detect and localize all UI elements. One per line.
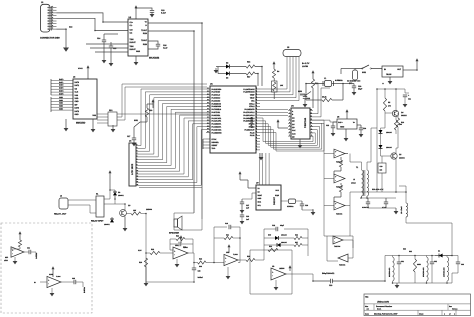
wire loop connections	[343, 240, 353, 258]
svg-text:C15: C15	[113, 47, 116, 50]
svg-text:RFA GD0 4.7K: RFA GD0 4.7K	[372, 188, 384, 191]
ground U2	[135, 56, 137, 62]
inverter U6E 74HC04	[338, 254, 348, 262]
svg-text:T2OUT: T2OUT	[141, 39, 148, 42]
svg-text:C2-: C2-	[130, 32, 133, 35]
wire to opamp B	[206, 262, 224, 264]
op-amp U8B	[224, 254, 238, 265]
svg-text:R5: R5	[388, 101, 390, 104]
capacitor C17b feedback	[170, 243, 178, 245]
wire ladder bottom rail	[392, 282, 452, 284]
svg-text:R22: R22	[151, 248, 154, 251]
ground DB9	[63, 48, 69, 52]
svg-text:RESET: RESET	[212, 144, 219, 147]
wire T1 bottom	[361, 196, 363, 198]
capacitor C18 top	[275, 227, 277, 231]
capacitor C18b	[228, 225, 230, 229]
ground C27	[240, 210, 245, 213]
power VCC trimpot	[273, 64, 275, 68]
wire Q2 emitter	[395, 159, 397, 186]
wire C28 to ground rail	[146, 281, 194, 283]
inverter U6D 74HC04	[333, 236, 343, 244]
wire diode bottom join	[381, 149, 391, 157]
svg-text:SW1: SW1	[134, 119, 138, 122]
capacitor box C10	[378, 163, 386, 173]
op-amp U9 LM386	[271, 268, 286, 280]
ground reset	[132, 143, 137, 146]
svg-text:RELAY_OUT: RELAY_OUT	[54, 213, 67, 216]
ground C13	[150, 14, 155, 17]
svg-text:40.2k: 40.2k	[322, 96, 327, 99]
svg-text:P0.16/EINT0: P0.16/EINT0	[244, 108, 254, 111]
svg-text:DAT0: DAT0	[59, 78, 63, 81]
connector J1 DB9	[41, 4, 51, 32]
ground R20	[145, 267, 147, 283]
trimpot RV1	[272, 81, 278, 92]
svg-text:X2: X2	[258, 190, 260, 193]
MCU right pin stubs	[256, 88, 260, 90]
capacitor C34	[24, 251, 29, 253]
svg-text:DAT5: DAT5	[59, 92, 63, 95]
capacitor C24	[357, 124, 361, 126]
wire MAX232 lower left pins	[103, 34, 105, 36]
svg-text:500pF/300-472: 500pF/300-472	[322, 272, 334, 275]
svg-text:7660: 7660	[340, 126, 344, 129]
svg-text:VCC3: VCC3	[78, 67, 83, 70]
capacitor C27 RTC	[241, 199, 243, 202]
svg-text:BUF/3k: BUF/3k	[83, 287, 86, 293]
title block frame	[364, 294, 471, 316]
wire DB9 pin5 to ground	[57, 29, 67, 47]
svg-text:VelRef: VelRef	[198, 276, 204, 279]
capacitor C32	[431, 256, 433, 263]
wire relay to Q3 collector	[115, 204, 125, 210]
diode D7 1N4148	[380, 134, 382, 146]
wire box connections	[381, 156, 383, 163]
power VCC buf amp	[52, 269, 54, 273]
svg-text:P0.8/TXD1: P0.8/TXD1	[212, 111, 221, 114]
svg-text:C30: C30	[358, 85, 361, 88]
power VCC SD card	[87, 68, 89, 72]
wire RTC left pins	[242, 198, 252, 200]
svg-text:P0.1/TXD0: P0.1/TXD0	[212, 91, 221, 94]
svg-text:P0.15/EINT2: P0.15/EINT2	[212, 131, 222, 134]
wire VCC branch to C13	[136, 8, 152, 10]
connector bus entry upper	[50, 79, 52, 95]
wire VCC to U2	[135, 11, 137, 19]
switch SW3	[300, 94, 306, 96]
wire crystal sides down	[305, 84, 307, 101]
svg-text:P0.10/CAP1: P0.10/CAP1	[212, 117, 222, 120]
connector J4 LCD header	[129, 143, 136, 186]
wire chain to loop	[345, 206, 350, 237]
ground ladder	[396, 283, 398, 285]
wire LCD backlight	[139, 187, 202, 189]
wire J6 to relay	[68, 199, 96, 201]
inductor L4	[393, 257, 395, 281]
wire relay coil top	[104, 190, 110, 199]
capacitor C13	[150, 10, 154, 12]
wire DB9 TX to MAX232	[57, 13, 129, 22]
wire speaker to bus	[173, 213, 175, 221]
wire detector box	[263, 229, 265, 260]
wire D2 to R16	[230, 66, 246, 68]
svg-text:R16: R16	[247, 61, 250, 64]
svg-text:P0.9/RXD1: P0.9/RXD1	[212, 114, 221, 117]
ground C23	[331, 133, 336, 136]
connector J3 MMC/SD socket	[73, 79, 97, 119]
svg-text:LCD 16X2: LCD 16X2	[131, 163, 134, 175]
svg-text:P0.20/MAT1.3: P0.20/MAT1.3	[243, 120, 254, 123]
wire RFA horizontal	[350, 191, 406, 193]
wires SD data to socket	[57, 80, 73, 82]
diode D8 1N4001	[114, 190, 116, 192]
crystal Y1	[325, 81, 332, 87]
svg-text:Monday, February 19, 2007: Monday, February 19, 2007	[374, 312, 397, 315]
svg-text:XTAL2: XTAL2	[249, 105, 254, 108]
svg-text:D8: D8	[118, 191, 120, 194]
capacitor C21 10uF	[405, 92, 409, 94]
svg-text:VREF: VREF	[250, 94, 255, 97]
wire bus LCD to MCU staircase	[139, 89, 206, 146]
ground C24	[359, 134, 364, 137]
wire 74HC164 to U5	[313, 120, 337, 122]
transistor Q3 2N3904	[120, 210, 127, 217]
svg-text:R20: R20	[139, 261, 142, 264]
capacitor C23	[333, 121, 337, 123]
svg-text:Li-ION: Li-ION	[302, 65, 309, 68]
transistor Q2 2N3906	[391, 153, 397, 159]
svg-text:DAT1: DAT1	[59, 81, 63, 84]
capacitor C28	[193, 263, 195, 269]
ground opamp B	[227, 267, 229, 276]
resistor R23	[198, 261, 207, 264]
svg-text:74HC04: 74HC04	[334, 245, 340, 248]
resistor R28	[339, 185, 342, 192]
ground diode cluster	[215, 68, 217, 70]
capacitor C35	[73, 280, 75, 284]
svg-text:CMD: CMD	[75, 100, 80, 103]
resistor R5 470	[383, 98, 386, 111]
ground C22	[304, 101, 306, 104]
wire bus direct pins	[260, 109, 288, 111]
ground Q3	[124, 217, 126, 229]
svg-text:Document Number: Document Number	[376, 305, 392, 308]
capacitor C26	[385, 198, 387, 202]
wire L3 to antenna filter	[406, 217, 452, 256]
svg-text:P0.25/AOUT: P0.25/AOUT	[244, 128, 255, 131]
resistor R18 pullup	[312, 73, 314, 77]
svg-text:P0.19/MAT1.2: P0.19/MAT1.2	[243, 117, 254, 120]
diode D6 1N4148	[379, 130, 383, 133]
svg-text:T1: T1	[356, 166, 358, 169]
svg-text:MMC/SD: MMC/SD	[76, 122, 86, 125]
svg-text:1uF: 1uF	[246, 207, 249, 210]
power VCC mic amp	[19, 234, 21, 238]
resistor R34 mic bias	[18, 240, 21, 247]
wire R25 to detector	[255, 259, 264, 261]
svg-text:SCL: SCL	[258, 204, 261, 207]
svg-text:RTXC1: RTXC1	[249, 123, 255, 126]
capacitor C22 bypass	[304, 99, 306, 101]
capacitor C20 below RTC	[241, 212, 243, 215]
svg-text:1uF: 1uF	[246, 218, 249, 221]
svg-text:T1OUT: T1OUT	[141, 29, 148, 32]
svg-text:Q2: Q2	[399, 153, 401, 156]
svg-text:RELAY SPDT: RELAY SPDT	[91, 220, 104, 223]
svg-text:P0.7/SSEL0: P0.7/SSEL0	[212, 108, 222, 111]
wire mic amp	[19, 247, 21, 249]
voltage regulator U3 78L05	[382, 66, 403, 77]
diode D11 1N4148	[268, 244, 277, 246]
MCU left pin stubs	[206, 88, 210, 90]
inductor L6	[447, 257, 449, 281]
svg-text:R10: R10	[401, 121, 404, 124]
wire buf input	[40, 281, 47, 283]
svg-text:R17: R17	[247, 76, 250, 79]
svg-text:D10: D10	[268, 234, 271, 237]
capacitor C25	[367, 198, 369, 202]
resistor R16	[246, 65, 255, 68]
battery connector BT1	[353, 70, 358, 80]
svg-text:0.1uF: 0.1uF	[161, 11, 167, 14]
wire regulator out to VCC	[403, 69, 417, 71]
wire opamp C out right	[292, 274, 313, 281]
wire trimpot down	[273, 78, 275, 81]
inverter U6B 74HC04	[334, 174, 345, 183]
resistor pack RP1	[108, 112, 117, 126]
svg-text:CAP+: CAP+	[338, 121, 343, 124]
svg-text:GND: GND	[136, 50, 141, 53]
svg-text:LM386: LM386	[279, 267, 284, 270]
crystal Y2 32768Hz	[281, 200, 288, 202]
switch SW2 power	[355, 68, 362, 70]
power VCC relay	[109, 173, 111, 177]
wire audio vertical	[145, 214, 147, 284]
resistor R25	[246, 258, 255, 261]
wire opamp A out	[188, 252, 193, 254]
diode D10 1N4148	[264, 237, 275, 239]
svg-text:GD IN3/GBP SH+: GD IN3/GBP SH+	[347, 80, 361, 83]
svg-text:R1OUT: R1OUT	[130, 41, 137, 44]
inverter U6A 74HC04	[334, 149, 345, 158]
ground Y2	[312, 209, 314, 212]
diode D2 1N4148	[226, 65, 230, 69]
svg-text:74HC04: 74HC04	[336, 161, 342, 164]
ground regulator	[389, 77, 391, 81]
svg-text:P1.31: P1.31	[250, 134, 255, 137]
svg-text:SQW: SQW	[275, 194, 279, 197]
svg-text:R21: R21	[176, 235, 179, 238]
svg-text:Doc1: Doc1	[377, 308, 381, 311]
wire R17 down to MCU	[255, 74, 258, 87]
svg-text:P1.30: P1.30	[250, 131, 255, 134]
svg-text:SPEAKER: SPEAKER	[169, 232, 180, 235]
svg-text:C1-: C1-	[130, 24, 133, 27]
resistor R22	[146, 252, 150, 254]
svg-text:C1+: C1+	[130, 21, 133, 24]
svg-text:RTXC2: RTXC2	[249, 126, 255, 129]
ground opamp C	[275, 280, 277, 287]
wire T1 top	[350, 154, 362, 171]
transistor Q4 2N2222	[392, 110, 398, 116]
ground C30	[352, 92, 357, 95]
svg-text:2N3904: 2N3904	[146, 208, 152, 211]
svg-text:DAT4: DAT4	[59, 90, 63, 93]
svg-text:DAT0: DAT0	[75, 81, 80, 84]
wire dashed audio box	[1, 223, 92, 313]
svg-text:DAT2: DAT2	[59, 84, 63, 87]
ground mic amp	[14, 257, 16, 261]
svg-text:74HC04: 74HC04	[336, 186, 342, 189]
svg-text:GND: GND	[75, 113, 80, 116]
wire D8	[110, 189, 115, 191]
wire opamp C loop top	[250, 250, 292, 294]
wire Q2 collector	[395, 148, 397, 153]
power VCC RTC	[239, 174, 241, 178]
svg-text:R4: R4	[277, 70, 279, 73]
capacitor C30 33pF	[343, 83, 354, 85]
resistor R30 base	[131, 212, 141, 215]
svg-text:74HC04: 74HC04	[336, 213, 342, 216]
op-amp U8A feedback resistor	[170, 238, 176, 240]
wire detector bottom	[264, 244, 268, 246]
ground C20	[240, 221, 245, 224]
shift register U4 74HC164	[291, 108, 310, 139]
wire R16 down to MCU	[255, 67, 262, 87]
svg-text:X1: X1	[258, 187, 260, 190]
wire cap rail	[361, 197, 396, 199]
wire inverter chain input	[313, 123, 327, 236]
diode D9 1N4001	[111, 217, 113, 219]
connector J6 relay out	[59, 198, 68, 209]
ground SD 3	[112, 125, 114, 129]
capacitor C17 reset	[133, 127, 135, 138]
inductor L5	[427, 257, 429, 281]
svg-text:A4: A4	[367, 308, 369, 311]
capacitor C19 coupling	[313, 280, 330, 282]
svg-text:OUT/3k: OUT/3k	[35, 253, 38, 259]
wire opamp C output	[286, 273, 292, 275]
op-amp U10A mic	[11, 247, 24, 257]
RTC U7 DS1307	[256, 185, 281, 210]
svg-text:B+ 3.7V: B+ 3.7V	[302, 62, 310, 65]
wire bundle J5 to MCU	[260, 57, 287, 90]
connector bus entry lower	[50, 97, 52, 112]
svg-text:RTCK: RTCK	[212, 138, 218, 141]
svg-text:DAT3: DAT3	[59, 87, 63, 90]
resistor R21 crystal	[322, 98, 332, 101]
ground 74HC164	[299, 139, 301, 145]
microcontroller U1 LPC2138	[210, 86, 256, 153]
relay K1 SPDT	[96, 196, 104, 217]
svg-text:CONNECTOR DB9: CONNECTOR DB9	[40, 37, 60, 40]
wire crystal top	[306, 83, 324, 85]
resistor R17	[246, 72, 255, 75]
wire C19 up to output filter	[385, 256, 390, 282]
svg-text:P0.3/SDA0: P0.3/SDA0	[212, 97, 221, 100]
wire RF rail B	[384, 113, 386, 128]
wire diode row 1	[216, 66, 226, 68]
wire battery rail	[341, 68, 355, 70]
svg-text:DAT3: DAT3	[75, 107, 80, 110]
ground C21	[403, 104, 408, 107]
svg-text:P0.5/MISO0: P0.5/MISO0	[212, 102, 222, 105]
ground U5	[345, 129, 347, 138]
svg-text:DBGSEL: DBGSEL	[212, 141, 220, 144]
capacitor C16 right of U2	[148, 41, 158, 44]
svg-text:78L05: 78L05	[386, 73, 391, 76]
inductor L3 4.7mH	[405, 192, 407, 203]
op-amp U2 MAX3232 box	[128, 19, 148, 56]
wire diode row 2	[218, 73, 226, 75]
resistor R4	[273, 67, 275, 69]
resistor R26 detector	[294, 236, 302, 239]
power VCC opamp B	[228, 247, 230, 251]
svg-text:P0.18/CAP1.3: P0.18/CAP1.3	[243, 114, 254, 117]
resistor R31 loop	[268, 248, 278, 251]
svg-text:P0.17/CAP1.2: P0.17/CAP1.2	[243, 111, 254, 114]
svg-text:RP1: RP1	[109, 109, 113, 112]
svg-text:40pF: 40pF	[280, 224, 284, 227]
transformer T1 windings	[362, 170, 364, 196]
resistor R19 reset pullup	[145, 108, 148, 117]
svg-text:P0.2/SCL0: P0.2/SCL0	[212, 94, 221, 97]
svg-text:V+: V+	[353, 121, 355, 124]
speaker LS1	[174, 219, 178, 227]
svg-text:0.1uF: 0.1uF	[163, 46, 167, 49]
svg-text:C23: C23	[326, 124, 329, 127]
svg-text:TDO: TDO	[212, 147, 216, 150]
svg-text:L3 4.7mH: L3 4.7mH	[400, 206, 403, 214]
svg-text:Q3: Q3	[128, 204, 130, 207]
wire T1OUT long to MCU	[148, 23, 202, 219]
power VCC opamp C	[289, 268, 291, 272]
svg-text:4.09MHz: 4.09MHz	[335, 79, 343, 82]
power VCC opamp A	[180, 238, 182, 242]
ground RF	[368, 207, 396, 209]
svg-text:P0.14/DCD1: P0.14/DCD1	[212, 128, 222, 131]
ground SD 2	[92, 119, 94, 129]
svg-text:SW3: SW3	[298, 90, 302, 93]
svg-text:L2: L2	[353, 178, 355, 181]
diode D12	[439, 254, 443, 258]
capacitor C15	[109, 45, 113, 47]
ground C15	[110, 50, 112, 63]
power VCC regulator	[416, 61, 418, 65]
wire inverter loop box	[327, 236, 338, 261]
svg-text:DAT1: DAT1	[75, 84, 80, 87]
svg-text:470: 470	[388, 104, 391, 107]
svg-text:D3: D3	[226, 77, 228, 80]
svg-text:P1.16/TRACE: P1.16/TRACE	[243, 88, 255, 91]
svg-text:Title: Title	[365, 296, 368, 299]
resistor R27	[345, 153, 348, 155]
svg-text:Q4: Q4	[401, 111, 403, 114]
svg-text:D2: D2	[226, 62, 228, 65]
ground buf	[51, 288, 53, 293]
capacitor C29	[296, 200, 302, 202]
svg-text:C24: C24	[363, 127, 366, 130]
svg-text:P0.6/MOSI0: P0.6/MOSI0	[212, 105, 222, 108]
power VCC 74HC164	[277, 122, 279, 126]
power VCC MAX232	[135, 8, 137, 12]
capacitor C31	[398, 256, 400, 263]
svg-text:R25: R25	[247, 255, 250, 258]
svg-text:J6: J6	[60, 195, 62, 198]
ground SD 1	[65, 119, 67, 128]
svg-text:MAX3232: MAX3232	[149, 57, 160, 60]
